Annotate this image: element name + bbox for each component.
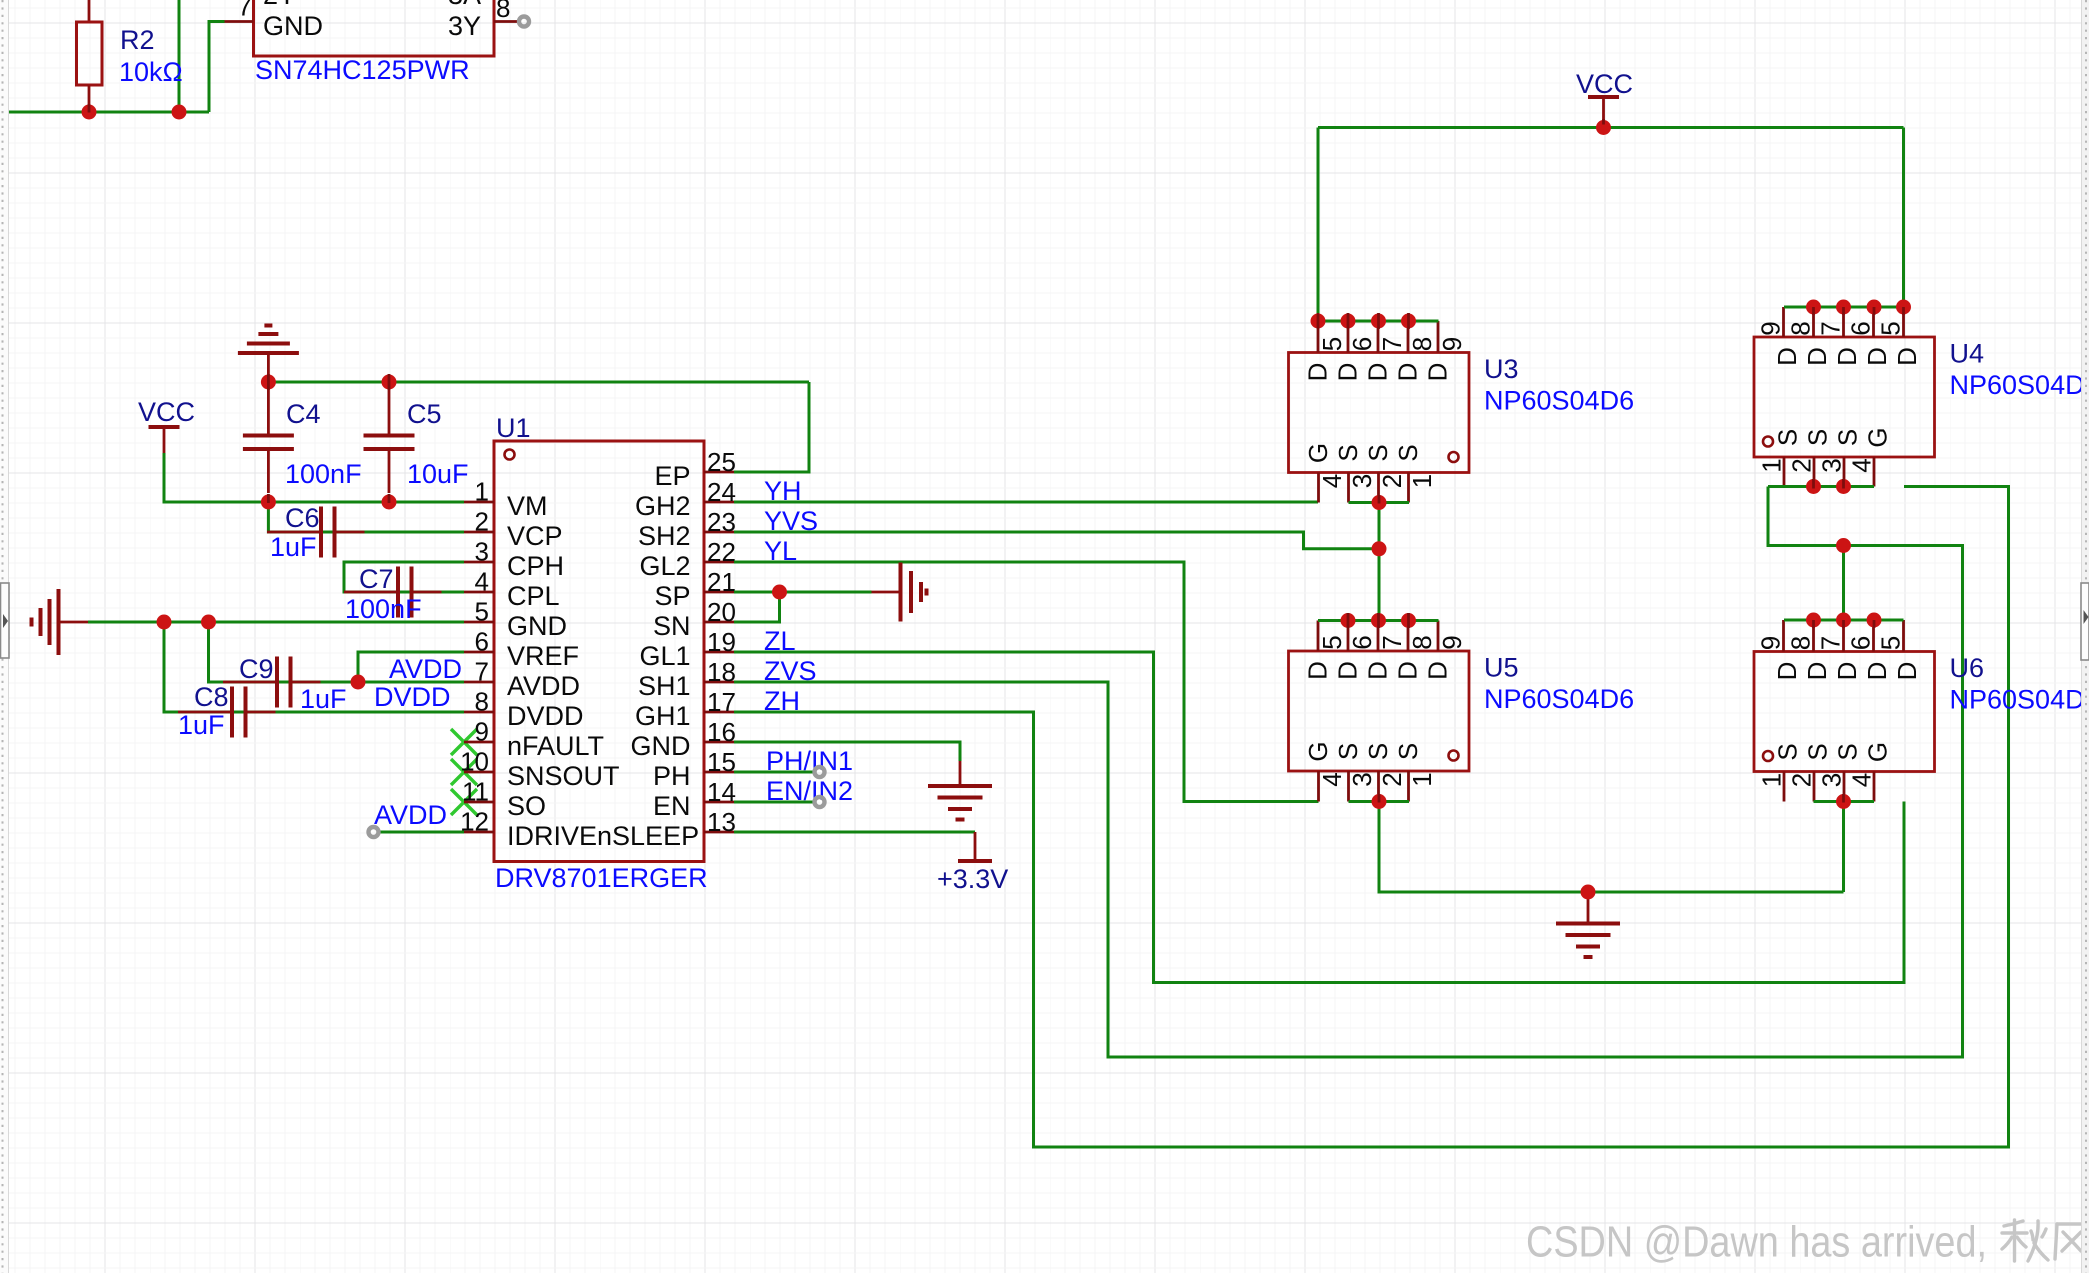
wire U6 drain rail	[1784, 619, 1904, 622]
svg-text:3A: 3A	[448, 0, 481, 10]
svg-text:VCC: VCC	[1576, 69, 1633, 99]
U1 pin 16 stub	[704, 741, 734, 744]
right collapse handle	[2081, 583, 2089, 660]
svg-text:3Y: 3Y	[448, 11, 481, 41]
svg-text:YVS: YVS	[764, 506, 818, 536]
svg-text:9: 9	[1437, 635, 1467, 649]
svg-text:S: S	[1832, 743, 1862, 760]
wire VM node to VCP pin2 via C6	[268, 502, 464, 532]
svg-text:C7: C7	[359, 564, 394, 594]
U6 top pin 6 stub	[1872, 620, 1875, 652]
svg-text:GND: GND	[631, 731, 691, 761]
U1 pin 2 stub	[464, 531, 494, 534]
svg-text:100nF: 100nF	[345, 594, 422, 624]
svg-text:17: 17	[707, 687, 736, 717]
svg-text:SNSOUT: SNSOUT	[507, 761, 620, 791]
wire vertical to SN74 area	[178, 0, 181, 112]
U3 top pin 5 stub	[1317, 321, 1320, 353]
svg-text:U3: U3	[1484, 354, 1519, 384]
earth ground below U5/U6 sources	[1587, 892, 1590, 924]
U3 top pin 8 stub	[1407, 321, 1410, 353]
junction under R2	[82, 105, 97, 120]
wire to C8 / DVDD pin8	[164, 622, 464, 712]
no-connect X pin10	[451, 759, 477, 785]
svg-text:1uF: 1uF	[300, 684, 347, 714]
U5 top pin 5 stub	[1317, 621, 1320, 652]
svg-text:D: D	[1772, 347, 1802, 366]
wire pin13 to +3.3V	[734, 831, 975, 834]
svg-text:GH2: GH2	[635, 491, 691, 521]
svg-text:8: 8	[1785, 321, 1815, 335]
svg-text:PH: PH	[653, 761, 691, 791]
wire VCC to U3 pin5	[1317, 128, 1320, 322]
svg-text:NP60S04D6: NP60S04D6	[1484, 684, 1634, 714]
right panel edge strip	[2081, 0, 2089, 1273]
power flag +3.3V	[974, 832, 977, 861]
svg-text:S: S	[1393, 743, 1423, 760]
junction U5 pin7	[1371, 613, 1386, 628]
svg-text:ZL: ZL	[764, 626, 796, 656]
svg-text:D: D	[1832, 662, 1862, 681]
wire U6 source down to GND rail	[1842, 802, 1845, 893]
svg-text:SP: SP	[654, 581, 690, 611]
earth ground above C4	[267, 353, 270, 382]
svg-text:S: S	[1363, 444, 1393, 461]
capacitor C9	[223, 681, 277, 684]
svg-text:8: 8	[1407, 337, 1437, 351]
svg-text:D: D	[1892, 662, 1922, 681]
wire net GND horizontal top-left	[8, 111, 209, 114]
U1 pin 8 stub	[464, 711, 494, 714]
wire VCC to VM	[164, 453, 464, 502]
svg-text:R2: R2	[120, 25, 155, 55]
wire net ZH from GH1	[734, 487, 2009, 1148]
wire EN stub	[734, 801, 814, 804]
wire U5 source to GND rail	[1379, 802, 1844, 893]
U2 pin 7 stub	[225, 20, 254, 23]
junction U4 pin2	[1836, 479, 1851, 494]
svg-text:D: D	[1802, 347, 1832, 366]
svg-text:SH1: SH1	[638, 671, 691, 701]
U2 pin 8 stub	[494, 20, 518, 23]
wire net YL from GL2	[734, 562, 1319, 802]
U6 top pin 8 stub	[1812, 620, 1815, 652]
junction VCC drop	[1596, 120, 1611, 135]
svg-text:U6: U6	[1950, 653, 1985, 683]
svg-text:IDRIVEnSLEEP: IDRIVEnSLEEP	[507, 821, 699, 851]
terminal PH wire end	[815, 767, 825, 777]
svg-text:AVDD: AVDD	[507, 671, 580, 701]
U6 bottom pin 4 stub	[1873, 772, 1876, 802]
svg-text:1: 1	[475, 477, 489, 507]
svg-text:D: D	[1302, 661, 1332, 680]
svg-text:10kΩ: 10kΩ	[119, 57, 183, 87]
svg-text:S: S	[1832, 429, 1862, 446]
svg-text:10uF: 10uF	[407, 459, 469, 489]
U6 top pin 5 stub	[1902, 620, 1905, 652]
wire net ZVS from SH1	[734, 487, 1963, 1058]
IC U2 SN74HC125PWR body (partially visible)	[254, 0, 495, 56]
U1 pin 13 stub	[704, 831, 734, 834]
svg-text:3: 3	[1347, 772, 1377, 786]
svg-text:VM: VM	[507, 491, 548, 521]
capacitor C5	[388, 382, 391, 436]
svg-text:D: D	[1892, 347, 1922, 366]
U4 bottom pin 4 stub	[1873, 457, 1876, 487]
svg-text:S: S	[1363, 743, 1393, 760]
svg-text:D: D	[1422, 363, 1452, 382]
U1 pin 4 stub	[464, 591, 494, 594]
U4 bottom pin 1 stub	[1783, 457, 1786, 487]
U1 pin 22 stub	[704, 561, 734, 564]
svg-text:VCC: VCC	[138, 397, 195, 427]
wire U4 source rail ZVS	[1768, 485, 1874, 488]
U4 bottom pin 3 stub	[1843, 457, 1846, 487]
svg-text:S: S	[1393, 444, 1423, 461]
svg-text:9: 9	[1755, 321, 1785, 335]
junction C5 bottom	[382, 495, 397, 510]
U1 pin1 marker circle	[505, 450, 515, 460]
svg-text:VREF: VREF	[507, 641, 579, 671]
svg-text:7: 7	[1815, 321, 1845, 335]
junction C4 bottom	[261, 495, 276, 510]
svg-text:7: 7	[475, 657, 489, 687]
svg-text:D: D	[1362, 661, 1392, 680]
U4 top pin 7 stub	[1842, 307, 1845, 337]
junction GND-C8	[157, 615, 172, 630]
U4 top pin 5 stub	[1902, 307, 1905, 337]
svg-text:3: 3	[475, 537, 489, 567]
svg-text:19: 19	[707, 627, 736, 657]
U1 pin 10 stub	[464, 771, 494, 774]
svg-text:4: 4	[1317, 474, 1347, 488]
svg-text:D: D	[1862, 347, 1892, 366]
junction U3 pin7	[1371, 314, 1386, 329]
svg-text:S: S	[1802, 429, 1832, 446]
U5 top pin 9 stub	[1437, 621, 1440, 652]
U6 top pin 7 stub	[1842, 620, 1845, 652]
svg-text:23: 23	[707, 507, 736, 537]
svg-text:D: D	[1302, 363, 1332, 382]
svg-text:21: 21	[707, 567, 736, 597]
svg-text:5: 5	[1317, 337, 1347, 351]
no-connect X pin11	[451, 789, 477, 815]
wire net YVS from SH2	[734, 532, 1379, 549]
svg-text:5: 5	[1875, 321, 1905, 335]
U5 bottom pin 2 stub	[1377, 771, 1380, 802]
transistor U4 NP60S04D (mirrored)	[1754, 337, 1935, 457]
svg-text:D: D	[1332, 363, 1362, 382]
svg-text:NP60S04D6: NP60S04D6	[1484, 386, 1634, 416]
U1 pin 15 stub	[704, 771, 734, 774]
junction U6 pin6	[1867, 613, 1882, 628]
svg-text:8: 8	[1785, 636, 1815, 650]
svg-text:D: D	[1392, 661, 1422, 680]
U1 pin 5 stub	[464, 621, 494, 624]
wire VCC rail top	[1318, 126, 1904, 129]
U3 top pin 6 stub	[1347, 321, 1350, 353]
svg-text:DRV8701ERGER: DRV8701ERGER	[495, 863, 708, 893]
wire SN up to SP	[734, 592, 780, 622]
svg-text:D: D	[1332, 661, 1362, 680]
svg-text:6: 6	[475, 627, 489, 657]
svg-text:G: G	[1303, 443, 1333, 463]
svg-text:S: S	[1772, 743, 1802, 760]
svg-text:D: D	[1802, 662, 1832, 681]
U5 top pin 8 stub	[1407, 621, 1410, 652]
U1 pin 14 stub	[704, 801, 734, 804]
svg-text:YH: YH	[764, 476, 802, 506]
svg-text:16: 16	[707, 717, 736, 747]
U4 bottom pin 2 stub	[1813, 457, 1816, 487]
U1 pin 25 stub	[704, 471, 734, 474]
U1 pin 21 stub	[704, 591, 734, 594]
U1 pin 1 stub	[464, 501, 494, 504]
junction U6 pin7	[1836, 613, 1851, 628]
svg-text:D: D	[1772, 662, 1802, 681]
svg-text:DVDD: DVDD	[507, 701, 584, 731]
svg-text:S: S	[1802, 743, 1832, 760]
svg-text:EN/IN2: EN/IN2	[766, 776, 853, 806]
svg-text:3: 3	[1347, 474, 1377, 488]
svg-text:6: 6	[1845, 636, 1875, 650]
transistor U3 NP60S04D6	[1289, 353, 1470, 473]
left collapse handle	[1, 583, 10, 658]
svg-text:2: 2	[475, 507, 489, 537]
U1 pin 18 stub	[704, 681, 734, 684]
capacitor C6	[267, 531, 321, 534]
svg-text:SN74HC125PWR: SN74HC125PWR	[255, 55, 470, 85]
U4 top pin 8 stub	[1812, 307, 1815, 337]
capacitor C7	[344, 591, 398, 594]
svg-text:DVDD: DVDD	[374, 682, 451, 712]
svg-text:U4: U4	[1950, 339, 1985, 369]
svg-text:G: G	[1303, 741, 1333, 761]
svg-text:7: 7	[1377, 337, 1407, 351]
junction U4 pin7	[1836, 300, 1851, 315]
resistor R2	[88, 0, 91, 22]
svg-text:C6: C6	[285, 503, 320, 533]
svg-text:4: 4	[475, 567, 489, 597]
svg-text:7: 7	[1377, 635, 1407, 649]
wire SP to ground	[734, 591, 872, 594]
left panel edge strip	[0, 0, 9, 1273]
U6 bottom pin 3 stub	[1843, 772, 1846, 802]
svg-text:4: 4	[1846, 773, 1876, 787]
svg-text:AVDD: AVDD	[389, 654, 462, 684]
svg-text:GND: GND	[263, 11, 323, 41]
capacitor C8	[178, 711, 232, 714]
junction U4 pin1	[1806, 479, 1821, 494]
U1 pin 24 stub	[704, 501, 734, 504]
svg-text:YL: YL	[764, 536, 797, 566]
svg-text:GH1: GH1	[635, 701, 691, 731]
wire net ZL from GL1	[734, 652, 1904, 983]
svg-text:AVDD: AVDD	[374, 800, 447, 830]
junction SP-SN	[772, 585, 787, 600]
U4 top pin 9 stub	[1782, 307, 1785, 337]
svg-text:1: 1	[1756, 458, 1786, 472]
svg-text:U1: U1	[496, 413, 531, 443]
svg-text:D: D	[1362, 363, 1392, 382]
wire U3 source rail	[1349, 501, 1410, 504]
svg-text:D: D	[1862, 662, 1892, 681]
svg-text:CSDN @Dawn has arrived,: CSDN @Dawn has arrived,	[1526, 1218, 1987, 1267]
svg-text:1uF: 1uF	[178, 710, 225, 740]
svg-text:3: 3	[1816, 458, 1846, 472]
svg-text:D: D	[1832, 347, 1862, 366]
junction AVDD-VREF	[351, 675, 366, 690]
junction U4 pin6	[1867, 300, 1882, 315]
wire to U2 pin 7	[209, 22, 225, 113]
junction U4 pin8	[1806, 300, 1821, 315]
U1 pin 12 stub	[464, 831, 494, 834]
svg-text:NP60S04D6: NP60S04D6	[1950, 685, 2089, 715]
U3 bottom pin 3 stub	[1347, 473, 1350, 503]
svg-text:1: 1	[1407, 474, 1437, 488]
svg-text:10: 10	[460, 747, 489, 777]
svg-text:CPH: CPH	[507, 551, 564, 581]
junction ground-C4	[261, 375, 276, 390]
earth ground left (sideways)	[59, 621, 89, 624]
junction U5 pin8	[1401, 613, 1416, 628]
wire EP ground net horizontal	[268, 381, 809, 384]
svg-text:GL2: GL2	[639, 551, 690, 581]
junction U3 pin6	[1341, 314, 1356, 329]
svg-text:7: 7	[1815, 636, 1845, 650]
wire U5 source rail	[1349, 800, 1410, 803]
svg-text:EP: EP	[654, 461, 690, 491]
U1 pin 9 stub	[464, 741, 494, 744]
svg-text:+3.3V: +3.3V	[937, 864, 1008, 894]
svg-text:14: 14	[707, 777, 736, 807]
no-connect X pin9	[451, 729, 477, 755]
svg-text:24: 24	[707, 477, 736, 507]
U3 top pin 7 stub	[1377, 321, 1380, 353]
svg-text:ZVS: ZVS	[764, 656, 817, 686]
svg-text:ZH: ZH	[764, 686, 800, 716]
svg-text:G: G	[1862, 427, 1892, 447]
svg-text:4: 4	[1317, 772, 1347, 786]
wire EP loop vertical + to EP pin	[734, 382, 809, 472]
junction ZVS mid	[1836, 538, 1851, 553]
junction at x179	[172, 105, 187, 120]
svg-text:5: 5	[1317, 635, 1347, 649]
wire CPH pin3 loop to CPL pin4 via C7	[344, 562, 464, 592]
svg-text:20: 20	[707, 597, 736, 627]
svg-text:2: 2	[1786, 773, 1816, 787]
U4 top pin 6 stub	[1872, 307, 1875, 337]
U3 bottom pin 1 stub	[1407, 473, 1410, 503]
svg-text:D: D	[1422, 661, 1452, 680]
U1 pin 23 stub	[704, 531, 734, 534]
svg-text:8: 8	[496, 0, 510, 23]
svg-text:6: 6	[1347, 337, 1377, 351]
wire VCC to U4 pin5	[1902, 128, 1905, 308]
svg-text:5: 5	[1875, 636, 1905, 650]
junction U3 pin2	[1372, 495, 1387, 510]
svg-text:GND: GND	[507, 611, 567, 641]
svg-text:SO: SO	[507, 791, 546, 821]
U3 bottom pin 4 stub	[1317, 473, 1320, 503]
svg-text:13: 13	[707, 807, 736, 837]
wire AVDD node up to VREF pin6	[358, 652, 464, 682]
wire U4 drain rail	[1784, 306, 1904, 309]
U5 bottom pin 1 stub	[1407, 771, 1410, 802]
U1 pin 17 stub	[704, 711, 734, 714]
junction U4 pin5	[1896, 300, 1911, 315]
junction YVS joins	[1372, 541, 1387, 556]
watermark CJK glyph feng (clipped)	[2055, 1224, 2089, 1259]
U1 pin 19 stub	[704, 651, 734, 654]
svg-text:C9: C9	[239, 654, 274, 684]
svg-text:15: 15	[707, 747, 736, 777]
U1 pin 7 stub	[464, 681, 494, 684]
wire U5 drain rail	[1318, 619, 1439, 622]
pin stub overlays through junction dots	[89, 104, 1904, 803]
svg-text:11: 11	[462, 777, 489, 807]
U5 top pin 7 stub	[1377, 621, 1380, 652]
U6 top pin 9 stub	[1782, 620, 1785, 652]
svg-text:D: D	[1392, 363, 1422, 382]
svg-text:C4: C4	[286, 399, 321, 429]
junction U5 pin2	[1372, 794, 1387, 809]
U5 top pin 6 stub	[1347, 621, 1350, 652]
junction U3 pin5	[1311, 314, 1326, 329]
svg-text:1: 1	[1407, 772, 1437, 786]
svg-text:1: 1	[1756, 773, 1786, 787]
junction U3 pin8	[1401, 314, 1416, 329]
svg-text:22: 22	[707, 537, 736, 567]
svg-text:2: 2	[1786, 458, 1816, 472]
svg-text:NP60S04D6: NP60S04D6	[1950, 370, 2089, 400]
svg-text:1uF: 1uF	[270, 532, 317, 562]
svg-text:18: 18	[707, 657, 736, 687]
junction U5 pin6	[1341, 613, 1356, 628]
U3 top pin 9 stub	[1437, 321, 1440, 353]
svg-text:G: G	[1862, 742, 1892, 762]
wire PH stub	[734, 771, 814, 774]
junction GND rail	[1581, 885, 1596, 900]
svg-text:6: 6	[1347, 635, 1377, 649]
svg-text:S: S	[1772, 429, 1802, 446]
junction at C5 top	[382, 375, 397, 390]
wire GND rail to pin5	[88, 621, 464, 624]
transistor U6 NP60S04D (mirrored)	[1754, 652, 1935, 772]
svg-text:U5: U5	[1484, 653, 1519, 683]
svg-text:4: 4	[1846, 458, 1876, 472]
junction U6 pin2	[1836, 794, 1851, 809]
U6 bottom pin 2 stub	[1813, 772, 1816, 802]
wire Z phase node vertical to U6	[1842, 546, 1845, 621]
capacitor C4	[267, 382, 270, 436]
svg-text:6: 6	[1845, 321, 1875, 335]
U2 pin 8 wire end terminal	[519, 17, 529, 27]
svg-text:3: 3	[1816, 773, 1846, 787]
wire U6 source rail	[1814, 800, 1875, 803]
svg-text:EN: EN	[653, 791, 691, 821]
svg-text:2: 2	[1377, 474, 1407, 488]
U5 bottom pin 3 stub	[1347, 771, 1350, 802]
svg-text:9: 9	[1437, 337, 1467, 351]
U1 pin 6 stub	[464, 651, 494, 654]
junction GND-C9	[201, 615, 216, 630]
svg-text:25: 25	[707, 447, 736, 477]
svg-text:2: 2	[1377, 772, 1407, 786]
U1 pin 11 stub	[464, 801, 494, 804]
svg-text:100nF: 100nF	[285, 459, 362, 489]
svg-text:nFAULT: nFAULT	[507, 731, 604, 761]
